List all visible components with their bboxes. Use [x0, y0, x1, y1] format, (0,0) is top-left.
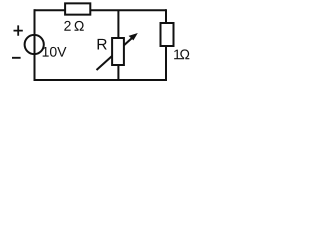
rheostat R arrowhead — [129, 33, 138, 40]
resistor 1ohm value label: ohm symbol — [180, 49, 189, 59]
rheostat R arrow shaft — [97, 36, 135, 70]
wire: bottom rail — [35, 79, 167, 81]
resistor 1ohm body — [161, 23, 174, 46]
resistor 2ohm value label: digit 2 — [64, 21, 70, 31]
wire: top rail — [35, 9, 167, 11]
background — [0, 0, 209, 86]
wire: right branch — [165, 9, 167, 81]
voltage source V1 plus sign — [14, 25, 23, 35]
wire: middle branch — [117, 10, 119, 80]
resistor 2ohm body — [65, 3, 90, 14]
voltage source V1 value label 10V: letter V — [57, 47, 66, 57]
wire: left branch — [34, 9, 36, 81]
voltage source V1 value label 10V: digit 1 — [43, 47, 49, 57]
voltage source V1 value label 10V: digit 0 — [50, 47, 57, 57]
voltage source V1 circle — [25, 35, 44, 54]
rheostat R body — [112, 38, 124, 65]
rheostat R name label — [98, 39, 107, 50]
resistor 1ohm value label: digit 1 — [174, 50, 180, 60]
resistor 2ohm value label: ohm symbol — [74, 21, 83, 31]
voltage source V1 minus sign — [12, 57, 21, 59]
